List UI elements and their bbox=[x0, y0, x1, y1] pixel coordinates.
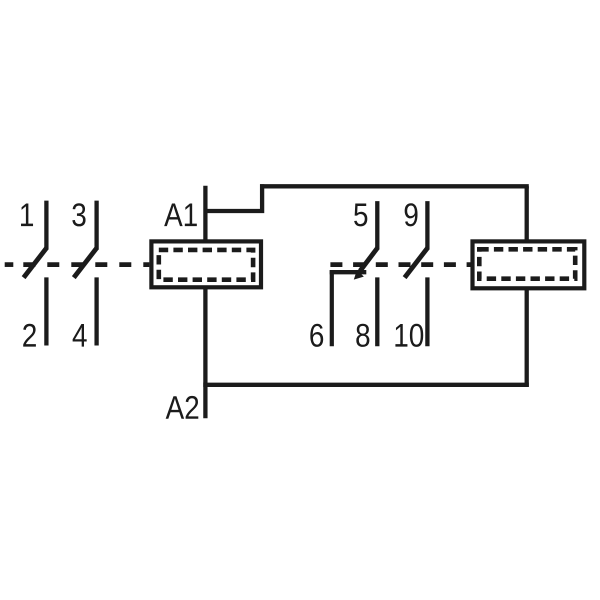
wire coil K1 bottom to A2 bbox=[203, 287, 207, 418]
coil K1 inner dashed box bbox=[159, 250, 253, 280]
contact 5-6-8 NC bar to terminal 6 bbox=[330, 270, 367, 274]
contact 9-10 moving arm bbox=[405, 248, 428, 278]
contact 3-4 top line bbox=[94, 201, 98, 250]
label 4 bbox=[73, 324, 87, 347]
contact 5-6-8 arm arrowhead bbox=[354, 270, 364, 280]
mechanical linkage dashed line left bbox=[5, 262, 150, 267]
label 2 bbox=[23, 324, 36, 347]
contact 1-2 top line bbox=[44, 201, 48, 250]
contact 1-2 moving arm bbox=[24, 248, 47, 278]
wire terminal 6 drop bbox=[330, 270, 334, 346]
label 1 bbox=[21, 204, 33, 227]
contact 9-10 top line bbox=[425, 201, 429, 249]
contact 3-4 bottom line bbox=[94, 277, 98, 345]
label 8 bbox=[356, 324, 369, 347]
coil K2 outer box bbox=[473, 241, 585, 288]
contact 1-2 bottom line bbox=[44, 277, 48, 345]
terminal label A1 bbox=[164, 204, 197, 227]
wire right vertical to coil K2 bbox=[525, 186, 529, 241]
label 5 bbox=[354, 204, 367, 227]
label 6 bbox=[310, 324, 323, 347]
mechanical linkage dashed line middle bbox=[330, 262, 470, 267]
contact 5-6-8 NO line terminal 8 bbox=[375, 277, 379, 346]
contact 9-10 bottom line bbox=[425, 277, 429, 346]
label 10 bbox=[395, 324, 423, 347]
wire top horizontal bbox=[260, 184, 529, 188]
wire A1 branch to top loop bbox=[205, 184, 262, 211]
label 3 bbox=[72, 203, 85, 226]
wire bottom horizontal bbox=[203, 383, 529, 387]
coil K1 outer box bbox=[151, 241, 261, 287]
coil K2 inner dashed box bbox=[479, 249, 575, 278]
contact 5-6-8 common top line bbox=[375, 201, 379, 249]
contact 3-4 moving arm bbox=[74, 248, 97, 278]
wire A1 vertical bbox=[203, 186, 207, 242]
terminal label A2 bbox=[166, 396, 199, 419]
label 9 bbox=[405, 203, 418, 226]
wire coil K2 bottom bbox=[525, 288, 529, 387]
contact 5-6-8 moving arm bbox=[360, 248, 378, 271]
